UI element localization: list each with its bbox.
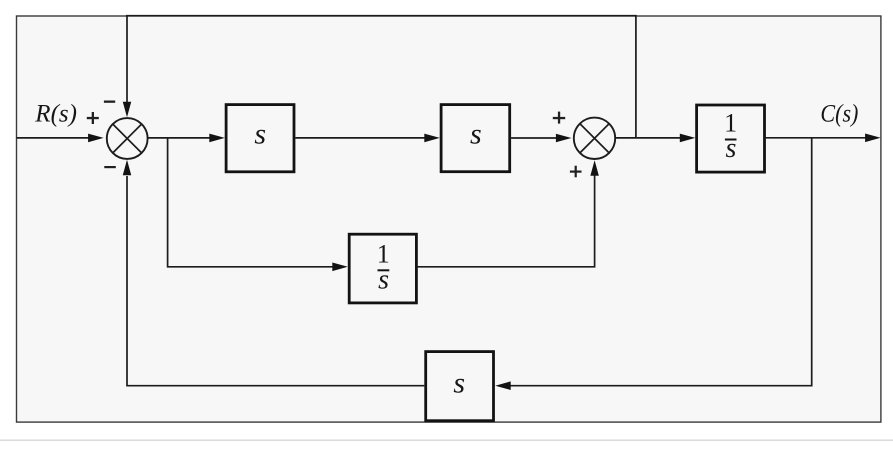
wire tap from S1 output down to middle block G4 (168, 138, 348, 271)
svg-text:s: s (378, 265, 389, 296)
sign + at summing junction S1 left input (87, 112, 99, 124)
sign + at summing junction S2 left input (553, 112, 565, 124)
wire top feedback: node after S2 up, along top edge, down into S1 top (123, 16, 637, 138)
sign + at summing junction S2 bottom input (570, 166, 582, 178)
wire G4 to S2 bottom input (417, 160, 599, 267)
wire tap from C(s) line down to bottom block G5 (495, 138, 812, 390)
block G2 "s" (441, 105, 510, 172)
svg-text:s: s (470, 117, 482, 150)
summing junction S2 (574, 118, 615, 159)
block G5 "s" (bottom feedback) (426, 352, 494, 421)
block G3 "1/s" (697, 105, 765, 172)
wire S2 output to block G3 (616, 134, 696, 143)
wire S1 output to block G1 (148, 134, 225, 143)
wire R(s) input with arrowhead into summing junction S1 (17, 134, 104, 143)
sign - at summing junction S1 bottom input (104, 166, 116, 168)
wire G2 to summing junction S2 (511, 134, 571, 143)
svg-text:R(s): R(s) (34, 101, 77, 128)
block G4 "1/s" (middle branch) (349, 234, 416, 303)
svg-text:s: s (453, 366, 465, 399)
summing junction S1 (107, 118, 148, 159)
svg-text:C(s): C(s) (820, 100, 858, 127)
wire G3 to C(s) output at right frame edge (765, 134, 881, 143)
block G1 "s" (226, 105, 294, 172)
svg-text:s: s (254, 117, 266, 150)
wire G1 to block G2 (295, 134, 439, 143)
wire G5 to S1 bottom input (123, 160, 425, 386)
sign - at summing junction S1 top input (104, 101, 115, 103)
svg-text:s: s (726, 133, 737, 164)
